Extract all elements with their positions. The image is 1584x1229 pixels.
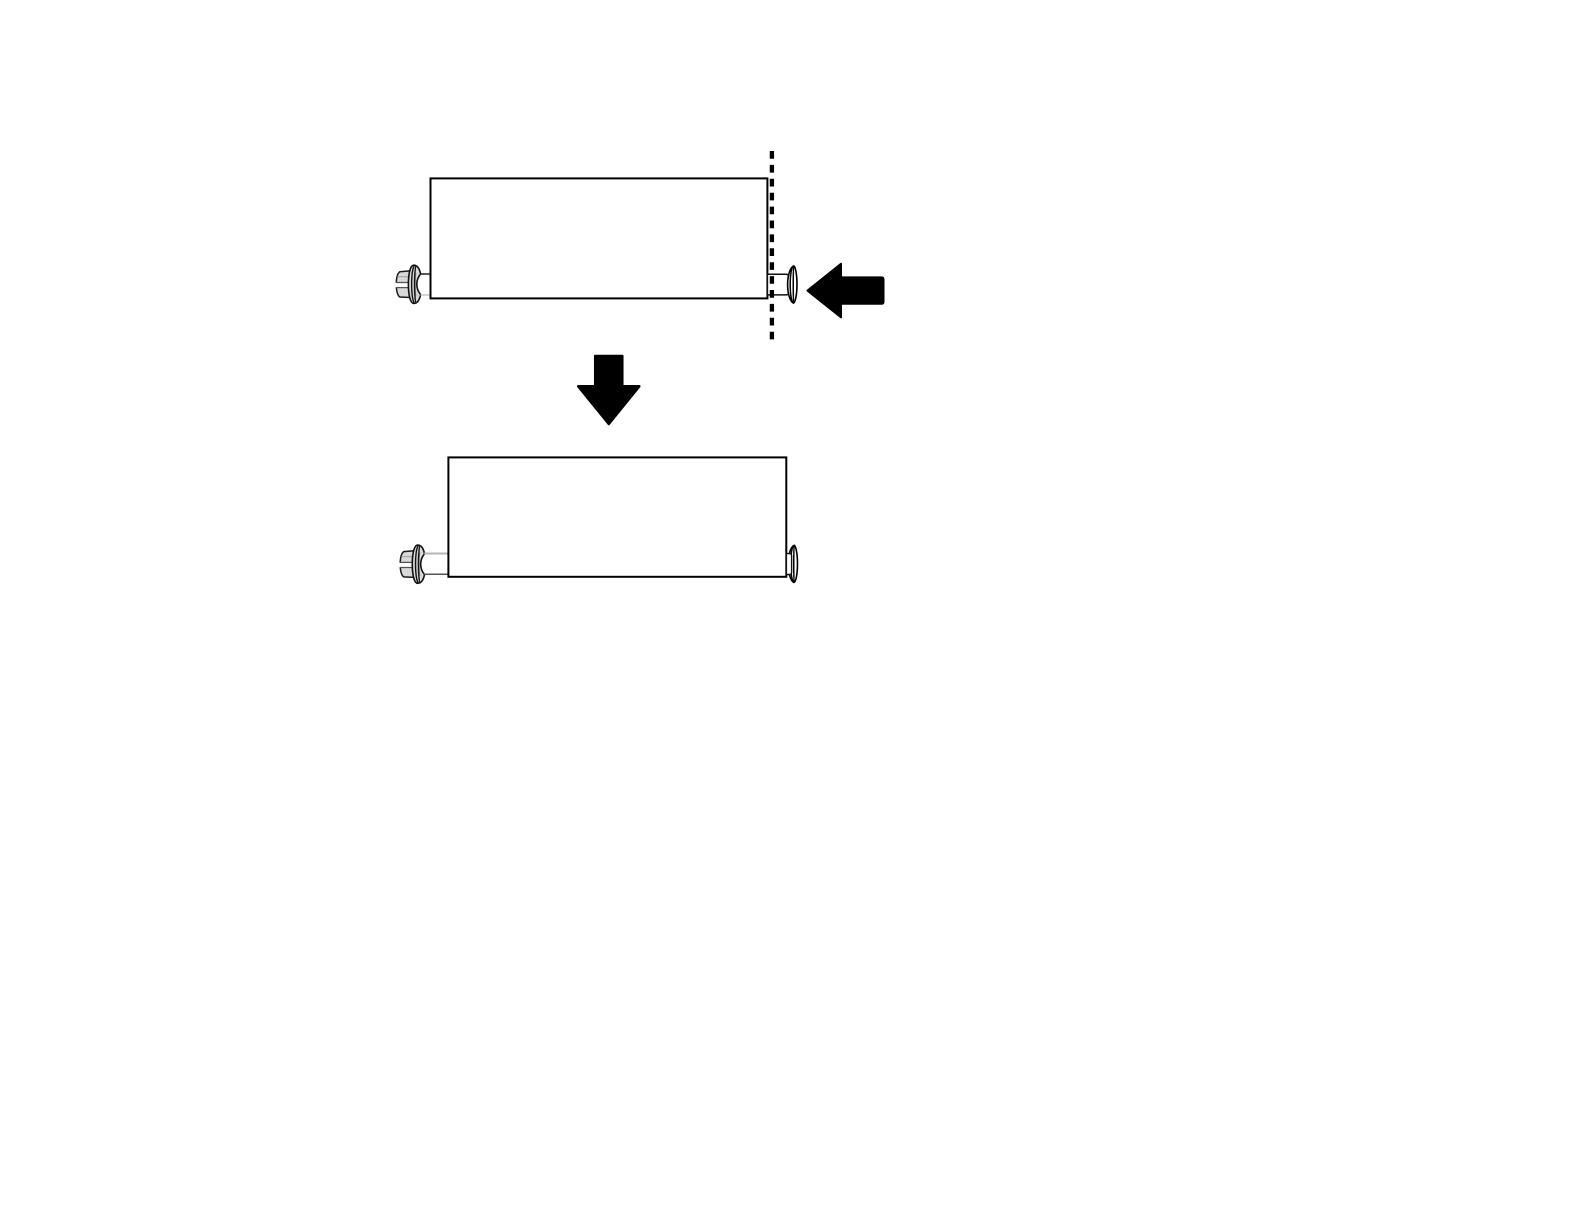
dashed alignment line: [770, 151, 774, 340]
right spindle end tube (bottom figure): [786, 554, 791, 575]
downward arrow between figures: [578, 356, 639, 424]
right flange (attached, bottom figure): [788, 545, 797, 582]
bottom figure: roll paper with flange attached: [399, 457, 798, 583]
right flange (white, detached, top figure): [788, 266, 797, 303]
top figure: roll paper on spindle: [395, 151, 884, 340]
left spindle shaft (top figure): [421, 274, 432, 295]
roll paper rectangle (top figure): [431, 178, 768, 298]
roll paper rectangle (bottom figure): [448, 457, 786, 576]
left end cap knob (bottom figure): [399, 551, 414, 578]
right spindle shaft tube (top figure): [767, 274, 788, 295]
left flange (gray crescent, top figure): [408, 265, 420, 303]
black arrow pointing left: [807, 264, 883, 318]
left spindle shaft (bottom figure): [424, 554, 449, 575]
left flange (gray crescent, bottom figure): [412, 545, 424, 583]
left end cap knob (top figure): [395, 271, 410, 298]
